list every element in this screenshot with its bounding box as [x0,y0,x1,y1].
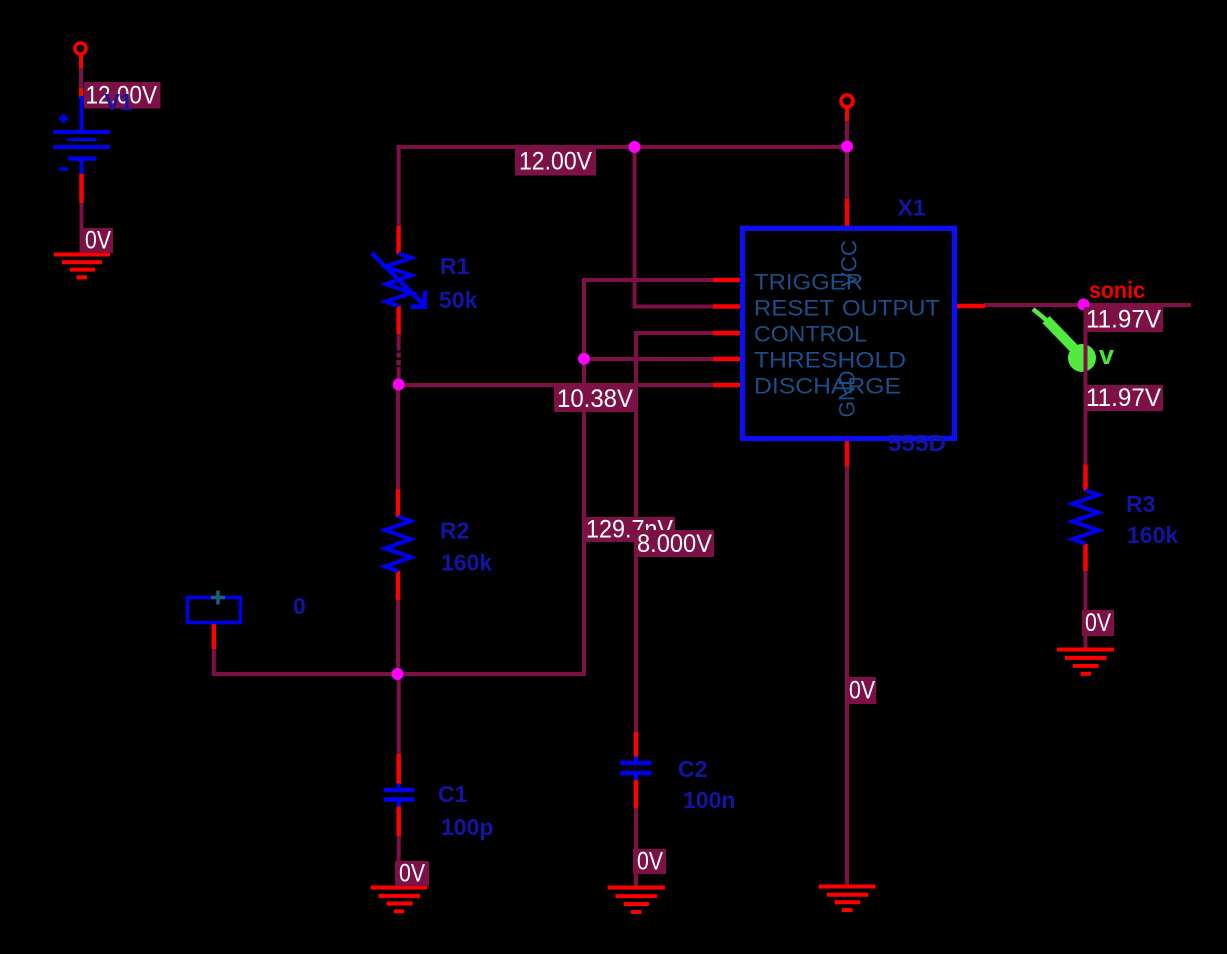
red pin stub: CONTROL [713,331,741,336]
ground: R3 [1057,650,1114,674]
red segment: R3 top [1083,465,1088,491]
capacitor C1 [384,784,415,807]
svg-text:R3: R3 [1126,491,1155,517]
svg-text:11.97V: 11.97V [1086,306,1161,334]
capacitor C2 [620,757,652,781]
red segment: C2 bottom [634,780,639,809]
wire: C1 branch [397,672,401,755]
terminal: battery top circle [75,43,86,54]
svg-text:GND: GND [835,371,860,418]
svg-text:160k: 160k [441,550,492,576]
svg-text:X1: X1 [898,195,926,221]
red segment: R3 bottom [1083,544,1088,571]
wire: RESET branch from top node [635,145,714,307]
wire: R1 top vertical [397,145,401,228]
svg-text:R2: R2 [440,518,469,544]
voltage label 11.97V (output node) [1084,306,1163,334]
red pin stub: GND bottom of IC [845,441,850,467]
ground: battery [54,255,110,278]
svg-text:RESET: RESET [754,296,834,321]
red segment: R1 bottom [396,306,401,334]
voltage label 11.97V (probe) [1084,384,1163,412]
node: output/R3 junction [1078,299,1090,311]
svg-text:0V: 0V [849,677,875,705]
voltage probe needle [1033,309,1048,322]
voltage label 129.7nV (trigger node) [584,516,675,544]
svg-text:100p: 100p [441,814,493,840]
wire: OUTPUT horizontal [984,303,1191,307]
red segment: R2 top [396,489,401,517]
svg-text:R1: R1 [440,253,470,279]
node: R1 bottom junction [393,379,405,391]
node: R2/C1 junction [392,668,404,680]
svg-text:0: 0 [293,593,306,619]
svg-text:0V: 0V [399,860,425,888]
IC X1 555D body [743,228,955,438]
svg-text:10.38V: 10.38V [557,385,633,413]
red segment: battery top terminal lead [79,55,83,68]
red segment: C1 bottom [396,806,401,836]
svg-text:DISCHARGE: DISCHARGE [754,374,901,399]
voltage label 12.00V (battery) [84,82,161,110]
svg-text:v: v [1099,340,1114,370]
wire: C2 bottom to ground [634,808,638,886]
svg-text:160k: 160k [1127,522,1178,548]
red segment: C2 top [634,732,639,757]
svg-text:100n: 100n [683,787,735,813]
wire: IC GND down [845,466,849,885]
red segment: battery lead tick [79,88,83,98]
voltage label 0V (IC ground wire) [847,677,876,705]
svg-text:11.97V: 11.97V [1086,384,1161,412]
wire: R1 dashed section [396,353,401,358]
svg-text:sonic: sonic [1089,277,1145,303]
voltage label 8.000V (control) [634,530,714,558]
voltage label 12.00V (top rail) [515,148,596,176]
node: top rail left junction [629,141,641,153]
wire: R3 vertical top [1084,305,1088,466]
resistor R3 [1073,490,1099,543]
wire: R3 bottom to ground [1084,571,1088,648]
voltage label 0V (C2 ground) [633,848,666,876]
red pin stub: THRESHOLD [713,357,741,362]
wire: R2 top [396,384,400,490]
voltage label 0V (C1 ground) [395,860,429,888]
svg-text:V1: V1 [105,89,133,115]
svg-text:12.00V: 12.00V [519,148,592,176]
svg-text:C2: C2 [678,756,707,782]
svg-text:0V: 0V [637,848,663,876]
red pin stub: TRIGGER [713,278,741,283]
voltage label 10.38V (discharge) [554,385,636,413]
terminal: VCC top circle [841,95,853,107]
svg-text:0V: 0V [1085,609,1111,637]
red pin stub: DISCHARGE [713,383,741,388]
resistor R2 [385,517,411,572]
red pin stub: OUTPUT [956,304,985,309]
wire: TRIGGER branch / left vertical / bottom run to source box [214,280,713,674]
ground: IC GND [819,887,876,911]
red segment: VCC terminal lead [845,107,849,121]
svg-text:0V: 0V [85,227,111,255]
red segment: C1 top [396,754,401,784]
red segment: source box lead [212,624,217,649]
svg-text:50k: 50k [439,287,478,313]
wire: battery top [79,66,83,96]
svg-text:VCC: VCC [837,240,862,287]
red segment: R2 bottom [396,571,401,600]
source box plus mark [211,591,225,605]
svg-text:THRESHOLD: THRESHOLD [754,348,906,373]
ground: C2 [608,888,666,913]
red pin stub: RESET [713,304,741,309]
svg-text:C1: C1 [438,781,468,807]
node: trigger/threshold junction [578,353,590,365]
resistor R1 (variable) [386,254,412,307]
R1 wiper arrow [372,253,427,307]
ground: C1 [371,888,428,912]
battery V1 [53,96,110,174]
wire: CONTROL branch down to C2 [636,333,713,734]
svg-text:CONTROL: CONTROL [754,322,867,347]
red segment: R1 top [396,226,401,254]
voltage label 0V (battery ground) [82,227,113,255]
svg-text:8.000V: 8.000V [637,530,712,558]
wire: battery bottom to ground [80,202,84,253]
svg-text:555D: 555D [888,430,946,456]
wire: top rail from R1 to VCC node [397,145,849,149]
wire: DISCHARGE to R1/R2 node [399,383,713,387]
red segment: battery negative lead [79,173,84,203]
voltage label 0V (R3 ground) [1082,609,1114,637]
wire: R1 bottom to node [397,334,401,351]
node: top rail VCC junction [841,141,853,153]
signal source box [188,598,241,623]
wire: R2 bottom to node [396,600,400,676]
wire: THRESHOLD stub to node [584,357,713,361]
svg-text:OUTPUT: OUTPUT [842,296,940,321]
voltage probe bulb [1068,344,1096,372]
red pin stub: VCC top of IC [845,199,850,227]
wire: VCC terminal to IC [845,108,849,200]
